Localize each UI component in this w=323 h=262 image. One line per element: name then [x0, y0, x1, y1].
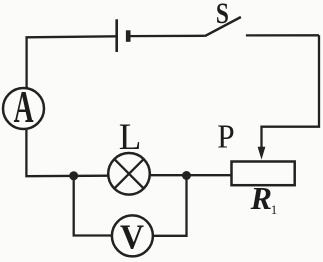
svg-text:A: A — [14, 83, 34, 132]
svg-text:L: L — [119, 117, 142, 158]
svg-text:S: S — [216, 0, 229, 30]
svg-text:1: 1 — [271, 202, 278, 217]
svg-text:P: P — [217, 118, 234, 155]
svg-text:R: R — [250, 180, 272, 216]
svg-text:V: V — [120, 219, 144, 257]
